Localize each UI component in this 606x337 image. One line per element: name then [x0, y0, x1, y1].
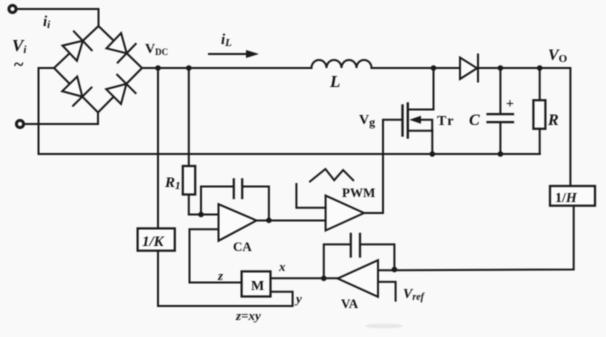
wire VA ref input stub	[378, 282, 396, 301]
wire VA inverting input from 1/H	[378, 206, 574, 271]
block 1/K	[138, 228, 175, 250]
wire inductor to boost diode	[372, 67, 461, 69]
CA feedback capacitor branch	[201, 187, 234, 215]
wire bottom terminal to bridge bottom vertex	[25, 113, 99, 125]
channel bar	[407, 104, 409, 138]
VDC sense wire down to 1/K	[157, 68, 159, 228]
gate bar	[401, 106, 403, 136]
svg-text:C: C	[469, 112, 480, 129]
svg-text:+: +	[506, 97, 514, 112]
svg-text:~: ~	[14, 54, 24, 74]
svg-text:L: L	[329, 72, 340, 91]
capacitor C branch	[499, 68, 501, 114]
diode D_LL (bridge lower-left)	[62, 77, 91, 106]
diode D_LR (bridge lower-right)	[106, 75, 135, 104]
body arrow	[415, 120, 432, 131]
bridge diamond wires	[54, 26, 142, 113]
op-amp VA (points left)	[338, 260, 378, 297]
svg-text:Vi: Vi	[12, 36, 27, 56]
drain stub	[408, 68, 434, 110]
svg-text:PWM: PWM	[342, 185, 375, 200]
diode D_UL (bridge upper-left)	[63, 31, 92, 60]
wire top terminal to bridge top vertex	[17, 9, 99, 26]
svg-text:CA: CA	[233, 239, 252, 254]
capacitor CA feedback plates	[234, 179, 242, 198]
MOSFET Tr	[403, 68, 434, 154]
R1 wire from top rail	[188, 68, 190, 166]
svg-text:1/K: 1/K	[142, 234, 165, 250]
svg-text:1/H: 1/H	[555, 191, 578, 206]
svg-text:ii: ii	[43, 14, 51, 31]
svg-text:VA: VA	[341, 296, 359, 311]
wire R1 bottom to CA inverting input	[189, 195, 219, 215]
top rail with inductor gap	[142, 67, 312, 69]
PWM sawtooth input stub	[296, 184, 325, 208]
VA feedback capacitor branch	[324, 244, 351, 278]
AC input terminal top	[9, 5, 16, 12]
wire 1/K output to multiplier y input	[158, 251, 293, 306]
svg-text:y: y	[294, 291, 302, 306]
sawtooth waveform symbol	[310, 169, 353, 182]
capacitor C plates	[488, 114, 514, 122]
svg-text:M: M	[251, 279, 264, 294]
svg-text:z: z	[217, 268, 224, 283]
svg-text:Vg: Vg	[359, 113, 375, 129]
wire boost diode to Vo corner, down to 1/H input	[478, 68, 570, 186]
boost diode D5	[460, 55, 478, 82]
svg-text:x: x	[278, 259, 286, 274]
capacitor VA feedback plates	[351, 234, 360, 257]
diode D_UR (bridge upper-right)	[107, 33, 136, 63]
svg-text:R: R	[547, 112, 559, 129]
resistor R	[539, 68, 541, 100]
wire multiplier z to CA non-inverting input	[190, 229, 242, 282]
svg-text:Vref: Vref	[403, 287, 426, 303]
svg-text:Tr: Tr	[437, 114, 456, 129]
wire bridge left vertex to bottom rail	[39, 68, 55, 154]
op-amp CA	[219, 204, 257, 241]
wire multiplier x line to VA output	[271, 277, 338, 279]
source stub	[408, 131, 432, 154]
svg-text:iL: iL	[221, 32, 232, 49]
block 1/H	[550, 186, 595, 206]
scan smudge artifact	[365, 324, 403, 329]
svg-text:VDC: VDC	[145, 42, 168, 57]
svg-text:z=xy: z=xy	[235, 308, 261, 323]
iL arrow	[209, 53, 248, 55]
inductor L	[312, 60, 372, 68]
resistor R1	[183, 166, 195, 195]
PWM comparator triangle	[326, 196, 364, 231]
svg-text:VO: VO	[548, 47, 568, 65]
wire PWM output up to MOSFET gate	[364, 120, 403, 213]
svg-text:R1: R1	[164, 175, 181, 192]
wire CA output to PWM input	[257, 220, 326, 222]
AC input terminal bottom	[16, 120, 23, 127]
multiplier block M	[242, 271, 271, 296]
bottom rail	[39, 153, 540, 155]
